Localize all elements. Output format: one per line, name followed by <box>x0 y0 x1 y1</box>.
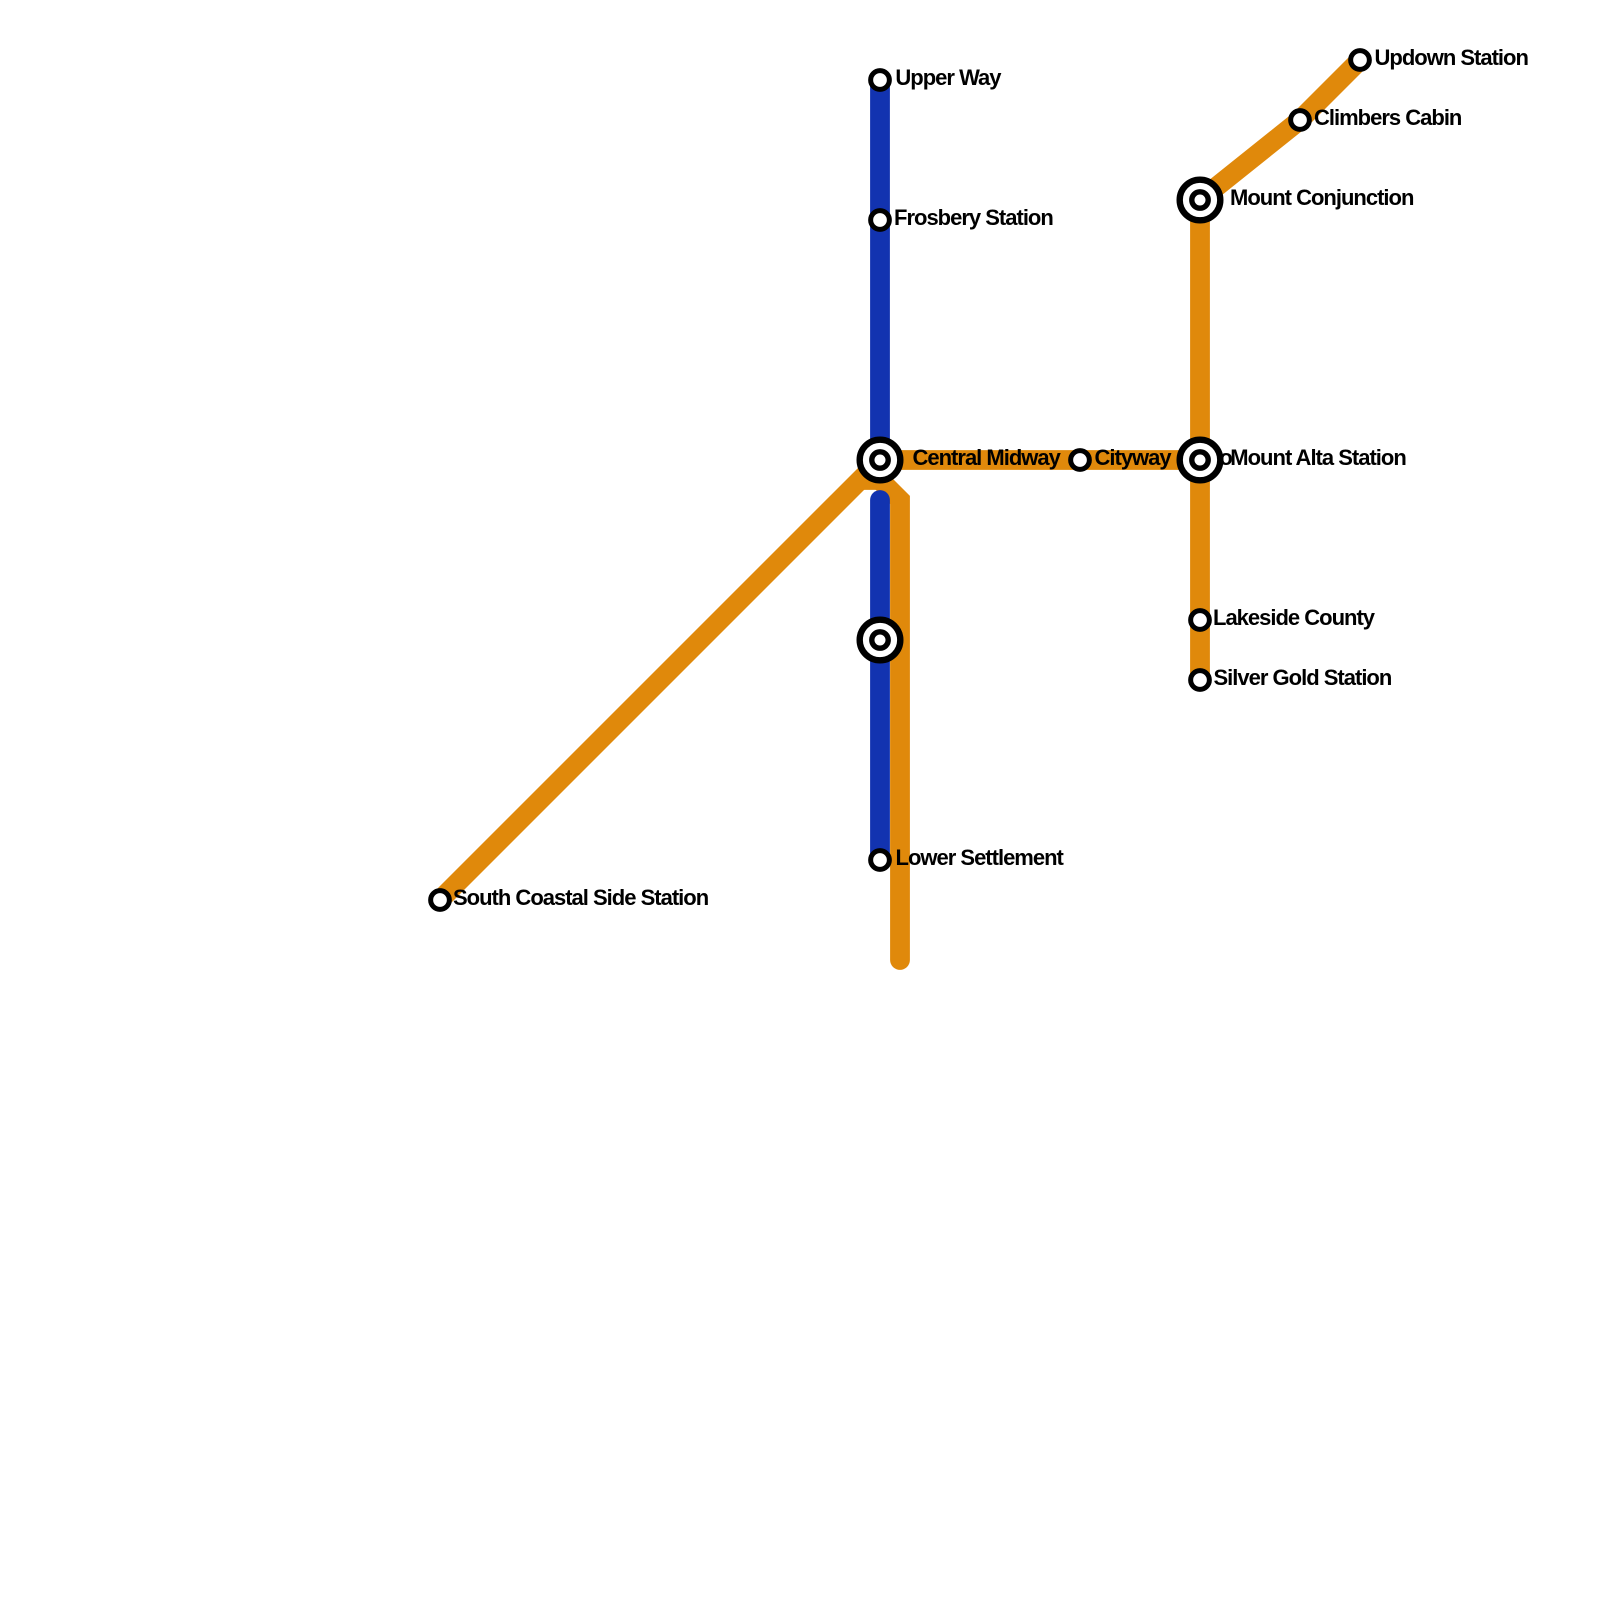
svg-text:Lower Settlement: Lower Settlement <box>896 845 1065 870</box>
svg-text:Lakeside County: Lakeside County <box>1213 605 1376 630</box>
orange line: South Coastal Side Station - Central Midway - Cityway - Mount Alta Station <box>440 460 1200 900</box>
svg-text:Mount Conjunction: Mount Conjunction <box>1230 185 1414 210</box>
svg-text:South Coastal Side Station: South Coastal Side Station <box>453 885 709 910</box>
svg-text:Frosbery Station: Frosbery Station <box>894 205 1053 230</box>
station Frosbery Station <box>871 211 890 230</box>
interchange station Mount Alta Station <box>1180 440 1221 481</box>
blue line: Upper Way - Frosbery Station - Central Midway <box>870 80 890 460</box>
station Updown Station <box>1351 51 1370 70</box>
svg-text:Mount Alta Station: Mount Alta Station <box>1230 445 1406 470</box>
svg-text:Upper Way: Upper Way <box>895 65 1002 90</box>
svg-text:Cityway: Cityway <box>1095 445 1173 470</box>
blue line: south of Central Midway - Lower Settlement <box>870 500 890 860</box>
svg-text:Silver Gold Station: Silver Gold Station <box>1214 665 1392 690</box>
station Lakeside County <box>1191 611 1210 630</box>
svg-text:Central Midway: Central Midway <box>913 445 1062 470</box>
svg-text:Climbers Cabin: Climbers Cabin <box>1314 105 1462 130</box>
orange stub line south of Central Midway <box>880 460 900 960</box>
interchange station Central Midway <box>860 440 901 481</box>
station Silver Gold Station <box>1191 671 1210 690</box>
short horizontal filler piece of stub joint <box>860 470 890 490</box>
station South Coastal Side Station <box>431 891 450 910</box>
station Climbers Cabin <box>1291 111 1310 130</box>
interchange station (unnamed) on blue line <box>860 620 901 661</box>
svg-text:Updown Station: Updown Station <box>1375 45 1529 70</box>
station Lower Settlement <box>871 851 890 870</box>
station Cityway <box>1071 451 1090 470</box>
station Upper Way <box>871 71 890 90</box>
interchange station Mount Conjunction <box>1180 180 1221 221</box>
orange line: Updown Station - Climbers Cabin - Mount Conjunction - Mount Alta - Lakeside County - Silver Gold Station <box>1200 60 1360 680</box>
